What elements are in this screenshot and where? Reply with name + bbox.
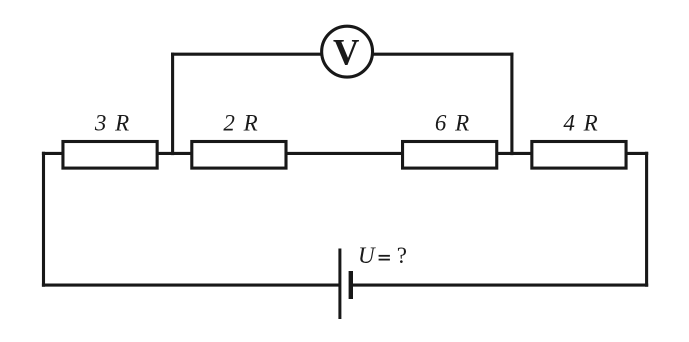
- wire bottom right: [351, 284, 648, 287]
- svg-text:3 R: 3 R: [94, 110, 131, 135]
- wire top horizontal (voltmeter branch): [171, 53, 514, 56]
- wire right voltmeter leg: [510, 53, 513, 156]
- label equals sign: [379, 255, 390, 257]
- resistor 2R: [192, 142, 286, 169]
- wire main horizontal: [42, 152, 648, 155]
- battery long plate: [338, 249, 341, 320]
- resistor 3R: [63, 142, 157, 169]
- resistor 6R: [403, 142, 497, 169]
- svg-text:V: V: [333, 31, 359, 72]
- svg-text:2 R: 2 R: [223, 110, 259, 135]
- resistor 4R: [532, 142, 626, 169]
- svg-text:4 R: 4 R: [563, 110, 599, 135]
- wire left voltmeter leg: [171, 53, 174, 156]
- battery short plate: [349, 271, 353, 299]
- wire right vertical: [645, 152, 648, 287]
- voltmeter circle: [322, 26, 373, 77]
- svg-text:6 R: 6 R: [435, 110, 471, 135]
- wire bottom left: [42, 284, 340, 287]
- wire left vertical: [42, 152, 45, 287]
